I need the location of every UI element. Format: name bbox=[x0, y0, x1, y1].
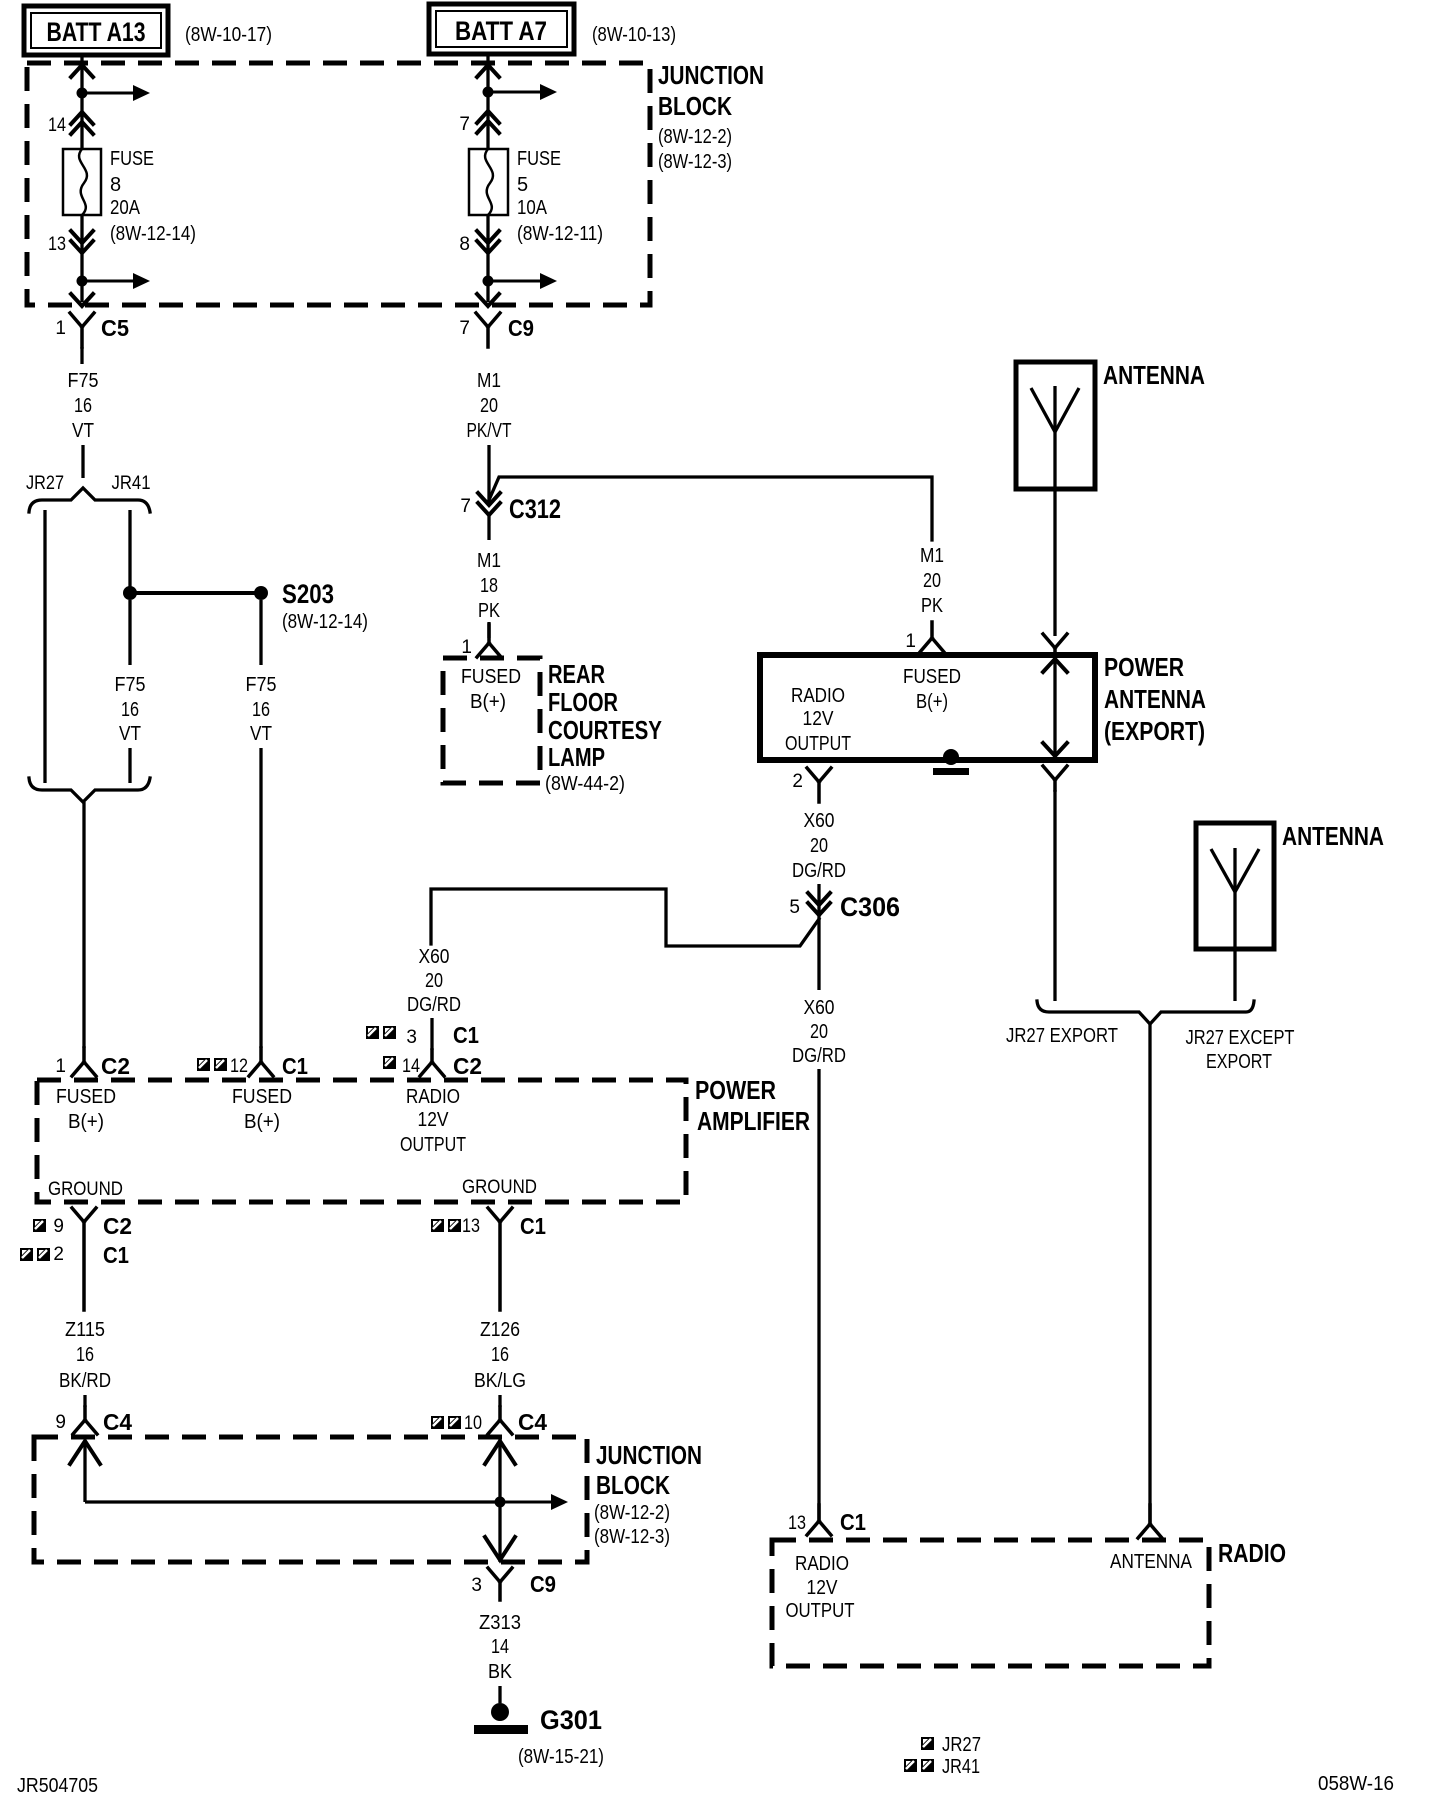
footer 058W-16 bbox=[1318, 1773, 1394, 1795]
svg-text:C306: C306 bbox=[840, 892, 900, 922]
svg-text:PK: PK bbox=[478, 600, 501, 622]
wire F75 upper bbox=[80, 347, 83, 364]
svg-text:20: 20 bbox=[425, 970, 443, 992]
svg-text:C9: C9 bbox=[508, 315, 534, 341]
wire to ground G301 bbox=[498, 1686, 501, 1703]
connector C306 pin 5 bbox=[789, 892, 900, 922]
svg-text:F75: F75 bbox=[246, 674, 277, 696]
svg-text:RADIO: RADIO bbox=[1218, 1538, 1286, 1568]
svg-text:2: 2 bbox=[792, 771, 803, 792]
svg-text:COURTESY: COURTESY bbox=[548, 715, 662, 745]
label POWER ANTENNA (EXPORT) bbox=[1104, 652, 1206, 746]
svg-text:(8W-15-21): (8W-15-21) bbox=[518, 1746, 604, 1768]
svg-text:13: 13 bbox=[788, 1513, 806, 1534]
arrowhead up into BATT A13 bbox=[71, 65, 93, 77]
svg-text:PK/VT: PK/VT bbox=[467, 420, 512, 442]
svg-text:X60: X60 bbox=[419, 946, 450, 968]
svg-text:VT: VT bbox=[250, 723, 272, 745]
svg-text:1: 1 bbox=[461, 637, 472, 658]
svg-text:1: 1 bbox=[55, 318, 66, 339]
svg-text:OUTPUT: OUTPUT bbox=[400, 1134, 466, 1156]
svg-text:VT: VT bbox=[119, 723, 141, 745]
radio pin labels bbox=[786, 1551, 1193, 1622]
svg-text:PK: PK bbox=[921, 595, 944, 617]
antenna symbol (except export) bbox=[1211, 848, 1259, 949]
svg-text:16: 16 bbox=[121, 699, 139, 721]
amplifier pin labels bbox=[56, 1086, 466, 1156]
svg-text:10A: 10A bbox=[517, 197, 548, 219]
svg-text:BK: BK bbox=[488, 1661, 513, 1683]
svg-text:FLOOR: FLOOR bbox=[548, 687, 618, 717]
svg-text:C1: C1 bbox=[840, 1509, 866, 1535]
svg-text:ANTENNA: ANTENNA bbox=[1110, 1551, 1193, 1573]
svg-text:BATT A7: BATT A7 bbox=[455, 16, 547, 46]
wire inside junction block from pin 9 bbox=[70, 1441, 500, 1502]
branch arrow right (A13 feed) bbox=[82, 85, 150, 101]
power antenna pin labels bbox=[785, 666, 961, 755]
label ANTENNA (top) bbox=[1103, 360, 1205, 390]
svg-text:FUSED: FUSED bbox=[232, 1086, 292, 1108]
fuse 8 20A bbox=[63, 149, 101, 215]
svg-text:2: 2 bbox=[53, 1244, 64, 1265]
merge bracket JR27 export variants bbox=[1037, 1001, 1254, 1024]
svg-text:ANTENNA: ANTENNA bbox=[1104, 684, 1206, 714]
antenna box (except export) bbox=[1196, 823, 1274, 949]
svg-text:B(+): B(+) bbox=[244, 1111, 280, 1133]
svg-text:3: 3 bbox=[406, 1027, 417, 1048]
svg-text:C2: C2 bbox=[101, 1053, 130, 1079]
wire S203 branch upper bbox=[259, 600, 262, 665]
svg-text:16: 16 bbox=[491, 1344, 509, 1366]
svg-text:JR504705: JR504705 bbox=[17, 1775, 98, 1797]
merge brace bottom bbox=[29, 778, 150, 802]
svg-text:16: 16 bbox=[76, 1344, 94, 1366]
radio dashed box bbox=[772, 1540, 1209, 1666]
ground symbol on power antenna bbox=[933, 749, 969, 775]
svg-text:BK/RD: BK/RD bbox=[59, 1370, 111, 1392]
wire X60 below C306 bbox=[817, 917, 820, 990]
svg-text:C2: C2 bbox=[453, 1053, 482, 1079]
svg-text:C9: C9 bbox=[530, 1571, 556, 1597]
svg-text:Z313: Z313 bbox=[479, 1612, 521, 1634]
svg-text:OUTPUT: OUTPUT bbox=[786, 1600, 855, 1622]
svg-text:B(+): B(+) bbox=[916, 691, 948, 713]
wire label F75 16 VT (S203 branch) bbox=[246, 674, 277, 745]
rear floor courtesy lamp dashed box bbox=[443, 658, 540, 783]
branch arrow right in lower block bbox=[500, 1494, 568, 1510]
antenna mast through power antenna bbox=[1043, 655, 1067, 760]
svg-text:BLOCK: BLOCK bbox=[658, 91, 732, 121]
wire S203 branch to amplifier bbox=[259, 748, 262, 1048]
connector pin 8 (double chevron) bbox=[459, 215, 499, 302]
wire label F75 16 VT (upper) bbox=[68, 370, 99, 442]
svg-text:C4: C4 bbox=[518, 1409, 547, 1435]
connector pin 1 at courtesy lamp bbox=[461, 622, 501, 658]
svg-text:JR27 EXCEPT: JR27 EXCEPT bbox=[1186, 1027, 1295, 1049]
ground G301 bbox=[474, 1703, 604, 1768]
svg-text:7: 7 bbox=[459, 114, 470, 135]
branch wire to power antenna (M1 20 PK) bbox=[489, 477, 932, 540]
svg-text:OUTPUT: OUTPUT bbox=[785, 733, 851, 755]
svg-text:9: 9 bbox=[53, 1216, 64, 1237]
reference (8W-10-13) bbox=[592, 24, 676, 46]
svg-text:20: 20 bbox=[480, 395, 498, 417]
junction node lower A7 bbox=[483, 276, 494, 287]
svg-text:5: 5 bbox=[789, 897, 800, 918]
wire to amplifier radio output pin bbox=[430, 1018, 433, 1050]
svg-text:10: 10 bbox=[464, 1413, 482, 1434]
connector pin 9 C4 bbox=[55, 1407, 132, 1435]
svg-text:(8W-12-14): (8W-12-14) bbox=[282, 611, 368, 633]
arrowhead down exiting junction block bbox=[71, 294, 93, 306]
junction node lower A13 bbox=[77, 276, 88, 287]
antenna (export) symbol bbox=[1031, 386, 1079, 489]
svg-text:ANTENNA: ANTENNA bbox=[1103, 360, 1205, 390]
svg-text:JR27 EXPORT: JR27 EXPORT bbox=[1006, 1025, 1118, 1047]
svg-text:(8W-10-17): (8W-10-17) bbox=[185, 24, 272, 46]
svg-text:ANTENNA: ANTENNA bbox=[1282, 821, 1384, 851]
svg-text:POWER: POWER bbox=[1104, 652, 1184, 682]
svg-text:(8W-12-3): (8W-12-3) bbox=[594, 1526, 670, 1548]
wire label F75 16 VT (JR41) bbox=[115, 674, 146, 745]
wire BATT A7 to fuse 5 bbox=[486, 54, 489, 151]
svg-text:X60: X60 bbox=[804, 810, 835, 832]
svg-text:(8W-12-3): (8W-12-3) bbox=[658, 151, 732, 173]
wire JR41 variant lower bbox=[128, 748, 131, 783]
wire label Z313 14 BK bbox=[479, 1612, 521, 1683]
wire JR41 variant mid bbox=[128, 600, 131, 665]
svg-text:F75: F75 bbox=[68, 370, 99, 392]
junction block (lower) dashed box bbox=[34, 1437, 587, 1562]
svg-text:C4: C4 bbox=[103, 1409, 132, 1435]
battery feed BATT A13 box bbox=[24, 6, 168, 55]
wire BATT A13 to fuse 8 bbox=[80, 55, 83, 151]
footer JR504705 bbox=[17, 1775, 98, 1797]
svg-text:F75: F75 bbox=[115, 674, 146, 696]
svg-text:(8W-12-2): (8W-12-2) bbox=[594, 1502, 670, 1524]
branch kink from C306 to amplifier bbox=[431, 889, 819, 946]
svg-text:9: 9 bbox=[55, 1412, 66, 1433]
wire merged to amplifier pin 1 bbox=[82, 802, 85, 1048]
label JR41 bbox=[112, 473, 151, 494]
svg-text:FUSED: FUSED bbox=[461, 666, 521, 688]
label JR27 EXPORT bbox=[1006, 1025, 1118, 1047]
svg-text:8: 8 bbox=[459, 234, 470, 255]
label POWER AMPLIFIER bbox=[695, 1075, 810, 1136]
svg-text:S203: S203 bbox=[282, 579, 334, 609]
svg-text:C1: C1 bbox=[103, 1242, 129, 1268]
amplifier pin 3 C1 / 14 C2 bbox=[366, 1022, 482, 1079]
svg-text:C5: C5 bbox=[101, 315, 129, 341]
connector at power antenna (antenna lead in) bbox=[1043, 634, 1067, 656]
splice node on JR41 wire bbox=[123, 586, 137, 600]
svg-text:14: 14 bbox=[491, 1636, 509, 1658]
label JR27 bbox=[26, 473, 64, 494]
svg-text:5: 5 bbox=[517, 174, 528, 196]
svg-text:GROUND: GROUND bbox=[462, 1177, 537, 1198]
svg-text:M1: M1 bbox=[477, 550, 501, 572]
svg-text:DG/RD: DG/RD bbox=[792, 1045, 846, 1067]
svg-text:VT: VT bbox=[72, 420, 94, 442]
svg-text:B(+): B(+) bbox=[470, 691, 506, 713]
svg-text:BATT A13: BATT A13 bbox=[47, 17, 146, 47]
connector C5 pin 1 bbox=[55, 313, 129, 347]
svg-text:C1: C1 bbox=[282, 1053, 308, 1079]
wire label M1 18 PK bbox=[477, 550, 501, 622]
wire Z115 to junction block bbox=[83, 1395, 86, 1407]
connector pin 13 (double chevron) bbox=[48, 215, 93, 302]
wire X60 into C306 bbox=[817, 884, 820, 917]
wire to JR split bbox=[81, 445, 84, 478]
svg-text:18: 18 bbox=[480, 575, 498, 597]
wire JR27 variant bbox=[43, 510, 46, 783]
svg-text:RADIO: RADIO bbox=[406, 1086, 460, 1108]
svg-text:13: 13 bbox=[48, 234, 66, 255]
wire antenna to power antenna bbox=[1053, 489, 1056, 636]
svg-text:JR41: JR41 bbox=[112, 473, 151, 494]
svg-text:JUNCTION: JUNCTION bbox=[596, 1440, 702, 1470]
svg-text:AMPLIFIER: AMPLIFIER bbox=[697, 1106, 810, 1136]
antenna wire to radio bbox=[1148, 1024, 1151, 1524]
svg-text:16: 16 bbox=[252, 699, 270, 721]
wire M1 to C312 bbox=[487, 445, 490, 505]
svg-text:M1: M1 bbox=[920, 545, 944, 567]
junction node on A7 feed bbox=[483, 87, 494, 98]
svg-text:REAR: REAR bbox=[548, 659, 605, 689]
connector C9 pin 3 bbox=[471, 1568, 556, 1600]
svg-text:(8W-44-2): (8W-44-2) bbox=[545, 773, 625, 795]
wire Z126 to junction block bbox=[498, 1395, 501, 1407]
wire through lower block from pin 10 bbox=[485, 1437, 515, 1562]
fuse 8 labels bbox=[110, 148, 196, 245]
connector pin 2 (X60) bbox=[792, 768, 831, 802]
amplifier pin 1 C2 bbox=[55, 1048, 130, 1079]
svg-text:20: 20 bbox=[810, 1021, 828, 1043]
svg-text:FUSED: FUSED bbox=[56, 1086, 116, 1108]
label ANTENNA (right) bbox=[1282, 821, 1384, 851]
svg-text:12V: 12V bbox=[803, 708, 835, 730]
svg-text:EXPORT: EXPORT bbox=[1206, 1051, 1272, 1073]
junction block (top) dashed box bbox=[27, 63, 650, 305]
wire mast to JR27 EXPORT bracket bbox=[1053, 790, 1056, 1001]
amplifier pin 12 C1 bbox=[197, 1048, 308, 1079]
svg-text:7: 7 bbox=[459, 318, 470, 339]
svg-text:GROUND: GROUND bbox=[48, 1179, 123, 1200]
connector pin 14 (double chevron) bbox=[48, 112, 93, 136]
svg-text:JR41: JR41 bbox=[942, 1756, 980, 1778]
power antenna (export) box bbox=[760, 655, 1095, 760]
connector below power antenna (mast out) bbox=[1043, 766, 1067, 790]
svg-text:B(+): B(+) bbox=[68, 1111, 104, 1133]
svg-text:8: 8 bbox=[110, 174, 121, 196]
svg-text:RADIO: RADIO bbox=[791, 685, 845, 707]
lamp pin label FUSED B(+) bbox=[461, 666, 521, 713]
junction node in lower block bbox=[495, 1497, 506, 1508]
branch arrow right (A7 feed) bbox=[488, 84, 557, 100]
svg-text:JR27: JR27 bbox=[26, 473, 64, 494]
label JUNCTION BLOCK (top) bbox=[658, 60, 764, 173]
svg-text:12: 12 bbox=[230, 1056, 248, 1077]
svg-text:20: 20 bbox=[923, 570, 941, 592]
svg-text:G301: G301 bbox=[540, 1705, 602, 1735]
svg-text:14: 14 bbox=[402, 1056, 420, 1077]
svg-text:1: 1 bbox=[55, 1056, 66, 1077]
svg-text:1: 1 bbox=[905, 631, 916, 652]
wire label X60 20 DG/RD (2) bbox=[792, 997, 846, 1067]
wire label Z115 16 BK/RD bbox=[59, 1319, 111, 1392]
svg-text:12V: 12V bbox=[807, 1577, 839, 1599]
arrowhead up into BATT A7 bbox=[477, 65, 499, 77]
connector C312 pin 7 bbox=[460, 493, 561, 524]
svg-text:(8W-12-2): (8W-12-2) bbox=[658, 126, 732, 148]
splice S203 bbox=[254, 579, 368, 633]
wire label M1 20 PK/VT bbox=[467, 370, 512, 442]
power amplifier dashed box bbox=[37, 1080, 686, 1202]
splice wire to S203 bbox=[130, 591, 261, 595]
wire M1 18 PK below C312 bbox=[487, 515, 490, 540]
svg-text:C1: C1 bbox=[453, 1022, 479, 1048]
radio antenna pin bbox=[1138, 1505, 1162, 1538]
legend JR27 bbox=[921, 1734, 981, 1756]
svg-text:(8W-12-14): (8W-12-14) bbox=[110, 223, 196, 245]
label JUNCTION BLOCK (lower) bbox=[594, 1440, 702, 1548]
svg-text:C2: C2 bbox=[103, 1213, 132, 1239]
svg-text:058W-16: 058W-16 bbox=[1318, 1773, 1394, 1795]
svg-text:(EXPORT): (EXPORT) bbox=[1104, 716, 1205, 746]
svg-text:M1: M1 bbox=[477, 370, 501, 392]
amplifier ground pin 9 C2 / 2 C1 bbox=[20, 1208, 132, 1310]
connector C9 pin 7 bbox=[459, 313, 534, 347]
svg-text:7: 7 bbox=[460, 496, 471, 517]
svg-text:FUSED: FUSED bbox=[903, 666, 961, 688]
label JR27 EXCEPT EXPORT bbox=[1186, 1027, 1295, 1073]
svg-text:20A: 20A bbox=[110, 197, 141, 219]
svg-text:12V: 12V bbox=[418, 1109, 450, 1131]
arrowhead down exiting junction block (A7) bbox=[477, 294, 499, 306]
fuse 5 10A bbox=[469, 149, 508, 215]
connector pin 1 at power antenna bbox=[905, 622, 944, 652]
connector pin 10 C4 bbox=[431, 1407, 547, 1435]
svg-text:16: 16 bbox=[74, 395, 92, 417]
battery feed BATT A7 box bbox=[429, 4, 574, 54]
svg-text:13: 13 bbox=[462, 1216, 480, 1237]
svg-text:(8W-10-13): (8W-10-13) bbox=[592, 24, 676, 46]
wire label Z126 16 BK/LG bbox=[474, 1319, 526, 1392]
reference (8W-10-17) bbox=[185, 24, 272, 46]
svg-text:14: 14 bbox=[48, 115, 66, 136]
svg-text:DG/RD: DG/RD bbox=[792, 860, 846, 882]
svg-text:JUNCTION: JUNCTION bbox=[658, 60, 764, 90]
amplifier ground pin 13 C1 bbox=[431, 1208, 546, 1310]
label REAR FLOOR COURTESY LAMP bbox=[545, 659, 662, 795]
svg-text:JR27: JR27 bbox=[942, 1734, 981, 1756]
svg-text:C312: C312 bbox=[509, 494, 561, 524]
svg-text:POWER: POWER bbox=[695, 1075, 776, 1105]
svg-text:Z126: Z126 bbox=[480, 1319, 520, 1341]
connector pin 7 (double chevron) bbox=[459, 111, 499, 135]
split brace top bbox=[29, 488, 150, 512]
wire label X60 20 DG/RD (3) bbox=[407, 946, 461, 1016]
label M1 20 PK bbox=[920, 545, 944, 617]
junction node on A13 feed bbox=[77, 88, 88, 99]
svg-text:(8W-12-11): (8W-12-11) bbox=[517, 223, 603, 245]
wire X60 to radio bbox=[817, 1069, 820, 1521]
antenna (export) box bbox=[1016, 362, 1095, 489]
svg-text:FUSE: FUSE bbox=[110, 148, 154, 170]
svg-text:BLOCK: BLOCK bbox=[596, 1470, 670, 1500]
wire antenna2 to bracket bbox=[1233, 949, 1236, 1001]
amplifier ground labels bbox=[48, 1177, 537, 1200]
wire JR41 variant upper bbox=[128, 510, 131, 593]
connector C1 pin 13 at radio bbox=[788, 1505, 866, 1535]
wire label X60 20 DG/RD (1) bbox=[792, 810, 846, 882]
label RADIO bbox=[1218, 1538, 1286, 1568]
svg-text:20: 20 bbox=[810, 835, 828, 857]
svg-text:FUSE: FUSE bbox=[517, 148, 561, 170]
svg-text:RADIO: RADIO bbox=[795, 1553, 849, 1575]
svg-text:Z115: Z115 bbox=[65, 1319, 105, 1341]
legend JR41 bbox=[904, 1756, 980, 1778]
svg-text:BK/LG: BK/LG bbox=[474, 1370, 526, 1392]
branch arrow right (lower A7) bbox=[488, 273, 557, 289]
svg-text:DG/RD: DG/RD bbox=[407, 994, 461, 1016]
svg-text:X60: X60 bbox=[804, 997, 835, 1019]
fuse 5 labels bbox=[517, 148, 603, 245]
svg-text:3: 3 bbox=[471, 1575, 482, 1596]
svg-text:C1: C1 bbox=[520, 1213, 546, 1239]
svg-text:LAMP: LAMP bbox=[548, 742, 605, 772]
branch arrow right (lower A13) bbox=[82, 273, 150, 289]
